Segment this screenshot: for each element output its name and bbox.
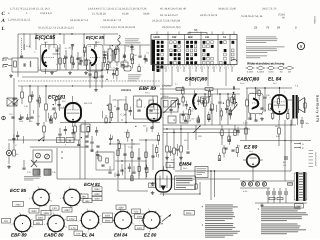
capacitor C62 xyxy=(96,153,99,155)
svg-text:ECH 81: ECH 81 xyxy=(84,182,101,187)
resistor R27 xyxy=(85,60,87,65)
resistor R3 xyxy=(59,58,62,64)
svg-text:EL 84: EL 84 xyxy=(82,233,95,238)
node grid stopper xyxy=(246,100,249,106)
wire switch lead up xyxy=(211,32,213,35)
wire stub xyxy=(256,89,258,93)
node junction ht xyxy=(255,87,256,88)
svg-text:28: 28 xyxy=(254,26,258,30)
tube socket EZ80 xyxy=(143,212,160,229)
node junction xyxy=(265,109,266,110)
svg-text:0: 0 xyxy=(152,67,153,70)
ground (osc) xyxy=(116,67,118,69)
svg-text:4: 4 xyxy=(269,96,270,99)
capacitor C44 xyxy=(58,133,61,135)
node junction xyxy=(59,33,60,34)
wire riser xyxy=(83,34,85,48)
resistor R46 xyxy=(236,148,238,153)
wire V4 anode xyxy=(255,88,257,95)
svg-text:C16: C16 xyxy=(9,113,12,116)
svg-text:50: 50 xyxy=(194,28,198,32)
resistor R46 xyxy=(173,148,176,154)
node head L xyxy=(36,153,41,158)
svg-text:6: 6 xyxy=(161,116,162,119)
wire switch lead xyxy=(201,66,203,72)
wire stub xyxy=(193,90,195,94)
wire switch lead xyxy=(207,66,209,86)
svg-text:5k: 5k xyxy=(126,133,128,136)
tube V4 diode arc xyxy=(193,94,197,110)
wire input riser xyxy=(17,34,19,77)
wire stub xyxy=(122,169,124,175)
wire switch lead xyxy=(183,66,185,72)
wire stub xyxy=(121,119,123,121)
svg-text:R74: R74 xyxy=(201,103,204,106)
svg-text:EZ 80: EZ 80 xyxy=(244,145,258,151)
svg-text:L60: L60 xyxy=(68,47,71,50)
wire riser xyxy=(35,34,37,50)
node 170V box xyxy=(67,217,77,221)
node 7,5V box xyxy=(132,209,141,213)
capacitor C38 xyxy=(263,96,266,98)
node 290V box xyxy=(92,187,102,191)
svg-text:2: 2 xyxy=(188,67,189,70)
node 225V box xyxy=(116,205,126,209)
node 200V box xyxy=(36,215,45,219)
resistor R7 xyxy=(95,72,98,78)
svg-text:4: 4 xyxy=(289,107,290,110)
wire rect bus xyxy=(240,187,270,189)
node dot row xyxy=(166,128,167,129)
wire stub xyxy=(193,94,195,102)
resistor R11 xyxy=(63,58,65,63)
resistor R39 xyxy=(157,135,159,140)
node page mark xyxy=(309,149,314,152)
switch S1 divider xyxy=(200,35,202,65)
resistor R50 xyxy=(234,130,236,136)
svg-text:10k: 10k xyxy=(126,45,129,48)
wire V5 leads xyxy=(279,87,281,94)
svg-text:+: + xyxy=(202,223,204,227)
resistor R38 xyxy=(131,176,133,181)
wire stub xyxy=(114,173,116,177)
capacitor C16 xyxy=(88,73,91,75)
svg-text:5: 5 xyxy=(85,50,86,53)
transformer T2 core xyxy=(292,95,294,119)
svg-text:6,3V~: 6,3V~ xyxy=(243,190,249,193)
svg-text:3903901: 3903901 xyxy=(121,89,132,92)
capacitor C71 xyxy=(71,132,74,134)
capacitor C37 xyxy=(122,63,125,65)
tube V1 ECC85 (triode a) xyxy=(41,45,58,72)
svg-text:2W: 2W xyxy=(288,71,291,74)
inductor L5 (osc coil) xyxy=(108,49,112,62)
node input box xyxy=(12,58,38,72)
capacitor C56 xyxy=(177,102,180,104)
resistor R31 xyxy=(208,115,210,120)
resistor legend symbol 1W xyxy=(278,67,284,70)
rectifier D3 xyxy=(255,182,259,186)
node 230V box xyxy=(135,214,145,218)
node 12V box xyxy=(74,231,83,235)
capacitor C17 xyxy=(100,75,103,77)
svg-text:245V: 245V xyxy=(64,209,70,212)
wire osc coupling xyxy=(84,59,90,61)
wire rf rail xyxy=(105,44,150,46)
wire V3 anode xyxy=(152,96,154,104)
svg-text:1,25: 1,25 xyxy=(243,122,248,125)
wire switch lead up xyxy=(189,32,191,35)
switch S1 band switch frame xyxy=(151,35,237,65)
wire stub xyxy=(47,113,49,119)
svg-text:KW: KW xyxy=(172,36,177,39)
rectifier D4 xyxy=(262,182,266,186)
capacitor C20 xyxy=(36,99,39,101)
node note block 2 xyxy=(246,46,285,49)
capacitor C58 xyxy=(224,147,227,149)
node C13 hatched xyxy=(33,169,40,175)
svg-text:6: 6 xyxy=(168,67,169,70)
capacitor C52 xyxy=(90,149,93,151)
capacitor C55 xyxy=(184,119,187,121)
node part box xyxy=(124,66,131,71)
wire af rail 1 xyxy=(163,124,296,126)
wire b+ risers xyxy=(284,120,286,181)
node 240V box 2 xyxy=(92,192,102,196)
svg-text:34,84,52, 53,40: 34,84,52, 53,40 xyxy=(218,8,237,11)
node junction ez xyxy=(252,180,253,181)
capacitor C72 xyxy=(278,191,280,195)
switch S1 divider xyxy=(229,35,231,65)
node det box A xyxy=(168,116,176,123)
svg-text:0,5M: 0,5M xyxy=(192,107,197,110)
svg-text:+: + xyxy=(258,207,260,211)
capacitor C39 xyxy=(197,99,200,101)
wire EZ80 leads xyxy=(252,167,254,181)
svg-text:2BV: 2BV xyxy=(82,195,87,198)
wire feedback xyxy=(139,139,160,141)
capacitor C61 BH xyxy=(284,156,288,158)
wire stub xyxy=(22,136,24,143)
wire antenna to input box xyxy=(8,58,12,60)
resistor R32 xyxy=(43,126,46,132)
potentiometer R22 arrow xyxy=(231,105,237,112)
node DRM box xyxy=(80,194,89,198)
resistor R33 xyxy=(182,89,184,94)
svg-text:L: L xyxy=(1,26,5,32)
svg-text:s: s xyxy=(29,198,30,200)
svg-text:0,1: 0,1 xyxy=(175,83,178,86)
capacitor C52 xyxy=(197,119,200,121)
capacitor C64 xyxy=(108,171,111,173)
svg-text:29,(9,05,15,0(2): 29,(9,05,15,0(2) xyxy=(162,26,181,29)
svg-text:C25: C25 xyxy=(143,124,146,127)
tube V5 EL84 xyxy=(272,95,287,114)
ground (rf3) xyxy=(85,71,87,73)
node tone dashed box xyxy=(96,152,114,170)
svg-text:a: a xyxy=(263,186,264,188)
switch S1 contact cells xyxy=(157,41,160,44)
resistor R26 xyxy=(269,104,272,110)
resistor R48 xyxy=(221,130,223,136)
transformer T1 frame xyxy=(294,173,307,200)
svg-text:9: 9 xyxy=(265,109,266,112)
wire coil taps xyxy=(109,45,111,49)
resistor R43 xyxy=(131,152,133,158)
resistor R1 xyxy=(14,61,17,67)
svg-text:2,54,9 4,9: 2,54,9 4,9 xyxy=(40,12,52,15)
resistor R12 xyxy=(83,47,85,52)
tube V3 EBF89 xyxy=(147,104,161,121)
node 6,3V box xyxy=(135,226,144,230)
capacitor C55 xyxy=(137,157,140,159)
svg-text:1M: 1M xyxy=(146,51,149,54)
svg-text:90V: 90V xyxy=(36,222,41,225)
svg-text:54,13,95,97 5 8: 54,13,95,97 5 8 xyxy=(70,19,89,22)
svg-text:59,15,55,12 7,8 13,18,20,1: 59,15,55,12 7,8 13,18,20,12,15 xyxy=(38,27,75,30)
switch S1 lower cells xyxy=(157,66,160,69)
capacitor C42t xyxy=(233,86,235,89)
speaker LS1 xyxy=(297,97,299,113)
wire em84 riser xyxy=(210,171,212,200)
wire switch lead up xyxy=(233,32,235,35)
node note block 1 xyxy=(246,36,276,39)
svg-text:4,7n: 4,7n xyxy=(29,120,33,123)
wire switch lead xyxy=(195,66,197,72)
node junction xyxy=(76,59,77,60)
ground (hf) xyxy=(95,88,97,90)
node det value box xyxy=(201,97,209,103)
capacitor C51 xyxy=(96,145,99,147)
capacitor C60 30uF xyxy=(300,120,304,122)
potentiometer trimmer arrow xyxy=(164,100,177,113)
node junction em xyxy=(199,193,200,194)
resistor legend symbol 2W xyxy=(287,67,293,70)
svg-text:0,1: 0,1 xyxy=(37,115,40,118)
svg-text:4: 4 xyxy=(147,119,148,122)
wire switch lead xyxy=(159,66,161,72)
resistor R44 xyxy=(145,152,147,158)
wire em84 h xyxy=(160,193,200,195)
wire osc stub xyxy=(89,60,91,70)
resistor R19 xyxy=(204,100,207,106)
resistor R16 xyxy=(125,104,128,110)
node arrow A xyxy=(294,143,299,145)
node bottom note A2 xyxy=(205,222,233,225)
svg-text:Pin 1: Pin 1 xyxy=(249,150,253,153)
svg-text:a: a xyxy=(32,227,33,229)
resistor R45 xyxy=(166,146,169,152)
svg-text:a: a xyxy=(66,227,67,229)
capacitor C1 xyxy=(20,55,23,57)
svg-text:15,78,38,28: 15,78,38,28 xyxy=(92,13,106,16)
wire stub xyxy=(101,111,103,118)
svg-text:s: s xyxy=(11,224,12,226)
resistor R49 xyxy=(228,136,230,142)
svg-text:1500: 1500 xyxy=(19,120,23,123)
wire tone verticals xyxy=(117,140,119,179)
resistor R18 xyxy=(220,111,222,116)
node bottom note B2 xyxy=(261,223,297,226)
svg-text:ECC 85: ECC 85 xyxy=(10,188,27,193)
resistor R41 xyxy=(106,158,108,163)
svg-text:C45: C45 xyxy=(171,159,174,162)
resistor R40 xyxy=(99,156,101,161)
resistor R21 xyxy=(231,97,233,102)
svg-text:2: 2 xyxy=(101,44,102,47)
svg-text:0,1: 0,1 xyxy=(116,109,119,112)
node junction xyxy=(174,119,175,120)
resistor R19a inline xyxy=(176,88,184,91)
svg-text:s: s xyxy=(60,198,61,200)
inductor F2b xyxy=(149,100,154,107)
resistor R49 xyxy=(271,113,273,118)
node junction xyxy=(112,45,113,46)
jack B1 xyxy=(6,150,11,155)
resistor R28 xyxy=(110,113,112,118)
wire riser xyxy=(53,34,55,48)
inductor L2 xyxy=(30,61,31,67)
resistor legend symbol 0,125W xyxy=(258,67,264,70)
svg-text:18, 21 44 25,27: 18, 21 44 25,27 xyxy=(160,14,179,17)
node pot box xyxy=(81,124,90,132)
capacitor C72 xyxy=(77,143,80,145)
wire stub xyxy=(106,53,108,60)
capacitor C41 xyxy=(182,114,185,116)
wire af stub xyxy=(187,133,189,151)
switch S4 crossed xyxy=(31,160,37,167)
wire speaker leads xyxy=(297,119,299,126)
resistor R19 xyxy=(229,110,231,115)
tube V4 EABC80 xyxy=(249,94,264,114)
ground (psu) xyxy=(261,204,263,206)
capacitor C54 xyxy=(207,117,210,119)
capacitor C42 xyxy=(210,108,213,110)
resistor R52 xyxy=(195,184,197,189)
svg-text:40, 44,45,34,47,48, 49: 40, 44,45,34,47,48, 49 xyxy=(160,8,187,11)
node junction xyxy=(109,62,110,63)
capacitor C63 xyxy=(109,137,112,139)
svg-text:10k: 10k xyxy=(124,59,127,62)
wire switch lead xyxy=(189,66,191,86)
capacitor C48 xyxy=(19,117,22,119)
ground (jack) xyxy=(8,165,10,167)
svg-text:4: 4 xyxy=(164,67,165,70)
svg-text:+: + xyxy=(202,205,204,209)
svg-text:L18: L18 xyxy=(88,45,91,48)
tube V6 EM84 indicator xyxy=(156,171,172,193)
wire 50 bracket xyxy=(188,32,207,34)
wire af rail 2 xyxy=(163,128,250,130)
resistor R12 xyxy=(45,104,48,110)
capacitor C12 xyxy=(123,54,125,57)
svg-text:245V: 245V xyxy=(105,214,111,217)
svg-text:78: 78 xyxy=(266,26,270,30)
capacitor C66 xyxy=(228,139,231,141)
wire switch lead xyxy=(177,66,179,72)
svg-text:s: s xyxy=(44,224,45,226)
wire det rail 2 xyxy=(160,88,240,90)
svg-text:-165V: -165V xyxy=(43,212,50,215)
wire switch lead xyxy=(171,66,173,86)
svg-text:6,3V: 6,3V xyxy=(137,227,142,230)
resistor R16 xyxy=(138,67,140,72)
svg-text:1,75,15,78 2,12,15,43 13,: 1,75,15,78 2,12,15,43 13, 13, 14,3 xyxy=(10,8,50,11)
resistor R60 xyxy=(269,197,275,199)
capacitor C51 xyxy=(129,110,132,112)
svg-text:R56: R56 xyxy=(131,48,134,51)
svg-text:250V: 250V xyxy=(105,219,111,222)
capacitor C59 xyxy=(231,149,234,151)
node junction det xyxy=(204,93,205,94)
svg-text:R24: R24 xyxy=(184,139,187,142)
capacitor C16c xyxy=(30,116,33,118)
svg-text:a: a xyxy=(133,223,134,225)
svg-text:a: a xyxy=(82,201,83,203)
resistor R15 xyxy=(109,104,112,110)
node antenna note xyxy=(125,38,139,41)
tube socket ECC85 xyxy=(33,189,49,205)
node 245V box xyxy=(62,208,72,213)
capacitor C16b xyxy=(20,116,23,118)
capacitor C66 xyxy=(132,171,135,173)
svg-text:9: 9 xyxy=(56,63,57,66)
wire lf rail xyxy=(8,139,80,141)
svg-text:s: s xyxy=(139,220,140,222)
svg-text:240V: 240V xyxy=(94,193,100,196)
svg-text:34,35,41,47 7,8: 34,35,41,47 7,8 xyxy=(103,19,122,22)
wire gnd rail xyxy=(255,202,307,204)
rectifier D2 xyxy=(248,182,252,186)
wire stub xyxy=(221,135,223,138)
resistor R41 xyxy=(118,143,120,148)
capacitor C68 xyxy=(12,137,15,139)
ground (input) xyxy=(10,74,12,76)
capacitor C16a xyxy=(11,116,14,118)
wire riser xyxy=(29,34,31,48)
svg-text:220V~: 220V~ xyxy=(186,212,193,215)
capacitor C47 xyxy=(26,117,29,119)
svg-text:230V: 230V xyxy=(137,215,143,218)
node junction mixer xyxy=(45,85,46,86)
switch S1 divider xyxy=(184,35,186,65)
capacitor C36 xyxy=(143,57,146,59)
svg-text:170V: 170V xyxy=(69,218,75,221)
svg-text:LW: LW xyxy=(205,36,209,39)
svg-text:290V: 290V xyxy=(94,188,100,191)
rectifier D1 xyxy=(241,182,245,186)
wire stub xyxy=(216,89,218,95)
tube V7 EZ80 xyxy=(247,154,260,167)
potentiometer R29 xyxy=(193,126,200,133)
svg-text:3703003: 3703003 xyxy=(162,85,172,88)
capacitor C64 xyxy=(128,166,131,168)
svg-text:a: a xyxy=(100,223,101,225)
svg-text:a: a xyxy=(87,208,88,210)
resistor R45 xyxy=(223,148,225,153)
resistor R23 xyxy=(54,113,56,118)
svg-text:,73,28,59,47,54, 34,: ,73,28,59,47,54, 34, xyxy=(240,15,263,18)
antenna terminal A xyxy=(3,57,8,59)
node mains arrow xyxy=(162,216,170,222)
ground (V1 cathode) xyxy=(51,71,53,73)
node junction xyxy=(135,126,136,127)
svg-text:5k: 5k xyxy=(114,105,116,108)
capacitor C43 xyxy=(57,104,60,106)
resistor R25 xyxy=(116,70,118,75)
svg-text:EAB(C)80: EAB(C)80 xyxy=(237,77,259,83)
resistor legend symbol 0,25W xyxy=(247,67,253,70)
